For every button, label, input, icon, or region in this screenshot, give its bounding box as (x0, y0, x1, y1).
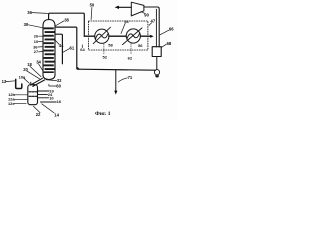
svg-text:38: 38 (64, 18, 69, 23)
svg-text:10: 10 (34, 39, 38, 44)
label 20 (23, 67, 39, 79)
svg-text:64: 64 (80, 47, 85, 52)
product line 16 (40, 99, 61, 104)
expansion valve (154, 70, 159, 78)
overhead pipe A to exchangers (49, 13, 85, 36)
vessel internals dashes (29, 92, 37, 97)
label 71 (118, 75, 133, 82)
valve drop line (156, 57, 158, 70)
svg-text:44: 44 (59, 43, 64, 48)
label 68 (161, 41, 172, 47)
bottoms transfer pipe (double diagonal) (31, 78, 42, 85)
column T1 shell (43, 20, 55, 80)
svg-text:34: 34 (36, 59, 41, 64)
label 12c (8, 101, 26, 106)
svg-text:30: 30 (24, 22, 29, 27)
label 64 (80, 45, 85, 52)
svg-text:32: 32 (57, 78, 62, 83)
accumulator tank 68 (152, 47, 161, 57)
label 62 with dotted pointer (128, 44, 133, 61)
svg-text:22: 22 (36, 112, 41, 117)
svg-text:90: 90 (144, 13, 149, 18)
label 54 (121, 19, 129, 34)
side pipe C (reflux draw) (55, 34, 62, 64)
svg-text:61: 61 (70, 46, 75, 51)
label 38 (dome right) (55, 18, 69, 27)
main cooler line (84, 35, 150, 37)
separator nozzle (31, 82, 33, 85)
label 12b (8, 92, 27, 97)
label 61 (63, 46, 75, 53)
junction nub (77, 68, 78, 69)
svg-text:58: 58 (108, 43, 113, 48)
compressor K1 (131, 2, 144, 16)
label 60 (49, 84, 62, 89)
export arrow (top) (115, 6, 132, 9)
svg-text:20: 20 (23, 67, 28, 72)
label 30 (24, 22, 43, 28)
separator vessel V1 (28, 85, 38, 105)
svg-text:14: 14 (54, 112, 59, 117)
overhead pipe stub (48, 14, 50, 19)
svg-text:Фиг. 1: Фиг. 1 (95, 111, 111, 117)
label 22 (33, 106, 41, 117)
label 13 (2, 79, 16, 84)
feed pipe 13 (U trap) (16, 79, 22, 88)
svg-text:68: 68 (167, 41, 172, 46)
label 12a (8, 97, 28, 102)
label 52 with dotted pointer (103, 44, 108, 60)
pipe B: upper side draw to bottom long line (55, 27, 156, 70)
label 44 (55, 40, 64, 48)
label 66 (160, 26, 174, 34)
product line 10 (38, 95, 55, 100)
product line 19 (38, 89, 55, 94)
label 14 (42, 104, 60, 118)
label 18 (27, 62, 41, 76)
left tray labels 26 10 36 27 (33, 34, 39, 55)
label 32 (46, 78, 62, 83)
svg-text:56: 56 (138, 43, 143, 48)
product line 24 (38, 92, 54, 97)
label 10a (19, 74, 30, 83)
svg-text:66: 66 (169, 26, 174, 31)
svg-text:62: 62 (128, 55, 133, 60)
svg-text:10: 10 (49, 95, 54, 100)
svg-text:52: 52 (103, 55, 108, 60)
svg-text:16: 16 (57, 99, 62, 104)
label 50 (90, 3, 95, 20)
label 34 (36, 59, 43, 70)
column trays (44, 27, 55, 73)
svg-text:50: 50 (90, 3, 95, 8)
heat exchanger E1 (93, 27, 110, 44)
svg-text:60: 60 (56, 84, 61, 89)
label 90 (141, 12, 150, 18)
svg-text:71: 71 (128, 75, 133, 80)
heat exchanger E2 (123, 28, 143, 45)
bottom branch with arrow 71 (114, 70, 117, 95)
label 47 (149, 18, 156, 25)
compressor discharge pipe (double line) (144, 7, 159, 47)
flow arrowhead into pipe (150, 35, 153, 38)
label 36 top-left (27, 10, 47, 15)
svg-text:10a: 10a (19, 74, 26, 79)
svg-text:27: 27 (34, 49, 38, 54)
dashed enclosure 50 (89, 21, 148, 50)
